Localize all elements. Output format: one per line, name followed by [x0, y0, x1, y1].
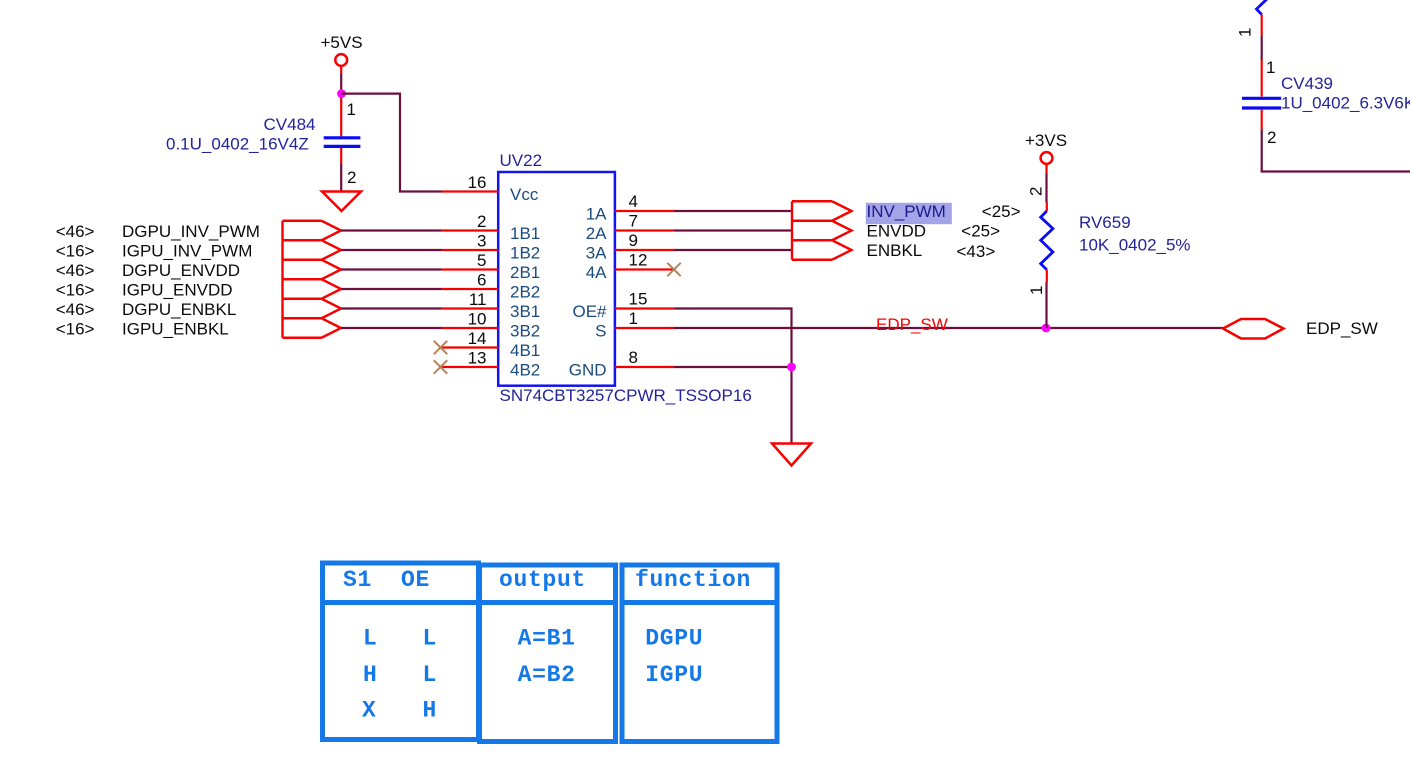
wire +3VS circle stub	[1045, 164, 1047, 174]
wire CV484 to ground	[340, 164, 342, 192]
svg-text:+5VS: +5VS	[321, 33, 363, 52]
pin 1 S	[595, 309, 674, 341]
net label <46> DGPU_ENVDD	[56, 261, 240, 280]
svg-text:7: 7	[629, 212, 638, 231]
no-connect X pin 13	[434, 360, 447, 373]
wire resistor to CV439	[1261, 36, 1263, 61]
svg-text:<46>: <46>	[56, 261, 95, 280]
input port bus (left, 6 arrows)	[283, 221, 342, 338]
svg-text:2B2: 2B2	[510, 283, 540, 302]
svg-text:12: 12	[629, 251, 648, 270]
svg-text:S: S	[595, 322, 606, 341]
svg-text:1: 1	[1027, 286, 1046, 295]
wire DGPU_INV_PWM to pin 2	[341, 229, 442, 231]
svg-text:OE#: OE#	[572, 302, 607, 321]
svg-text:<43>: <43>	[957, 242, 996, 261]
resistor (partial, top right)	[1257, 0, 1269, 15]
svg-text:L: L	[423, 662, 438, 688]
svg-text:4B1: 4B1	[510, 341, 540, 360]
off-page connector EDP_SW	[1223, 319, 1284, 339]
IC UV22 body	[498, 172, 615, 386]
svg-text:DGPU_ENVDD: DGPU_ENVDD	[122, 261, 240, 280]
svg-text:1: 1	[1266, 58, 1275, 77]
svg-text:2B1: 2B1	[510, 263, 540, 282]
power symbol +5VS	[321, 33, 363, 66]
table row 3: X H	[362, 698, 437, 724]
pin 12 4A	[586, 251, 674, 283]
wire +3VS to resistor	[1045, 174, 1047, 203]
net label INV_PWM (highlighted)	[866, 202, 952, 224]
pin 16 Vcc	[442, 173, 539, 204]
svg-text:L: L	[423, 626, 438, 652]
resistor RV659	[1041, 203, 1053, 283]
svg-text:<46>: <46>	[56, 300, 95, 319]
wire 1A to output port	[674, 210, 792, 212]
wire resistor pin stub (top right)	[1261, 15, 1263, 36]
ground symbol (UV22 GND)	[772, 444, 811, 466]
net label <16> IGPU_INV_PWM	[56, 241, 253, 260]
pin 6 2B2	[442, 271, 541, 302]
table row 2: H L	[363, 662, 437, 688]
wire RV659 to EDP_SW net	[1045, 283, 1047, 329]
pin 2 1B1	[442, 212, 541, 243]
svg-text:10K_0402_5%: 10K_0402_5%	[1079, 236, 1191, 255]
svg-text:2A: 2A	[586, 224, 607, 243]
wire DGPU_ENBKL to pin 11	[341, 307, 442, 309]
pin 14 4B1	[442, 329, 541, 360]
svg-text:3: 3	[477, 232, 486, 251]
svg-text:DGPU_INV_PWM: DGPU_INV_PWM	[122, 222, 260, 241]
svg-text:4B2: 4B2	[510, 361, 540, 380]
pin 4 1A	[586, 192, 674, 224]
svg-text:4A: 4A	[586, 263, 607, 282]
truth table column S1/OE	[323, 563, 479, 740]
net label <46> DGPU_INV_PWM	[56, 222, 260, 241]
no-connect X pin 12	[667, 263, 680, 276]
pin 15 OE#	[572, 290, 674, 322]
pin 8 GND	[569, 348, 674, 380]
pin 7 2A	[586, 212, 674, 244]
svg-text:IGPU_ENVDD: IGPU_ENVDD	[122, 280, 233, 299]
svg-text:1: 1	[629, 309, 638, 328]
svg-text:H: H	[423, 698, 438, 724]
wire 3A to output port	[674, 249, 792, 251]
svg-text:<16>: <16>	[56, 280, 95, 299]
svg-text:6: 6	[477, 271, 486, 290]
net label <16> IGPU_ENBKL	[56, 319, 229, 338]
junction dot node +5VS	[337, 89, 346, 98]
svg-text:RV659: RV659	[1079, 213, 1131, 232]
pin 13 4B2	[442, 349, 541, 380]
svg-text:OE: OE	[401, 567, 430, 593]
junction dot GND node	[787, 363, 796, 372]
svg-text:L: L	[363, 626, 378, 652]
wire S / EDP_SW net	[674, 327, 1223, 329]
svg-text:1B1: 1B1	[510, 224, 540, 243]
svg-text:2: 2	[1267, 128, 1276, 147]
svg-text:ENBKL: ENBKL	[867, 241, 923, 260]
svg-text:10: 10	[468, 310, 487, 329]
svg-text:DGPU: DGPU	[645, 626, 703, 652]
capacitor CV439	[1242, 60, 1281, 130]
svg-text:1U_0402_6.3V6K: 1U_0402_6.3V6K	[1281, 94, 1410, 113]
svg-text:CV484: CV484	[264, 115, 316, 134]
svg-text:+3VS: +3VS	[1025, 131, 1067, 150]
svg-text:UV22: UV22	[500, 151, 543, 170]
svg-text:5: 5	[477, 251, 486, 270]
wire OE# to ground net	[674, 309, 792, 444]
svg-text:11: 11	[469, 290, 487, 309]
capacitor CV484	[324, 99, 361, 164]
svg-text:GND: GND	[569, 361, 607, 380]
wire +5VS to junction	[340, 74, 342, 99]
svg-text:INV_PWM: INV_PWM	[867, 202, 946, 221]
svg-text:X: X	[362, 698, 377, 724]
svg-text:13: 13	[468, 349, 487, 368]
svg-text:14: 14	[468, 329, 487, 348]
svg-text:ENVDD: ENVDD	[867, 221, 927, 240]
svg-text:IGPU_INV_PWM: IGPU_INV_PWM	[122, 241, 252, 260]
net label <16> IGPU_ENVDD	[56, 280, 233, 299]
svg-text:1B2: 1B2	[510, 244, 540, 263]
svg-text:2: 2	[477, 212, 486, 231]
pin 5 2B1	[442, 251, 541, 282]
svg-text:A=B1: A=B1	[518, 626, 576, 652]
svg-text:16: 16	[468, 173, 487, 192]
svg-text:<25>: <25>	[982, 202, 1021, 221]
svg-text:1A: 1A	[586, 205, 607, 224]
svg-text:4: 4	[629, 192, 638, 211]
svg-text:IGPU: IGPU	[645, 662, 703, 688]
svg-text:8: 8	[629, 348, 638, 367]
svg-text:15: 15	[629, 290, 648, 309]
pin 10 3B2	[442, 310, 541, 341]
pin 11 3B1	[442, 290, 541, 321]
net label <46> DGPU_ENBKL	[56, 300, 237, 319]
output port bus (right, 3 arrows)	[792, 201, 852, 260]
wire GND pin to junction	[674, 366, 792, 368]
ground symbol (CV484)	[322, 192, 361, 212]
wire IGPU_ENBKL to pin 10	[341, 327, 442, 329]
svg-text:DGPU_ENBKL: DGPU_ENBKL	[122, 300, 236, 319]
wire 2A to output port	[674, 229, 792, 231]
svg-text:3A: 3A	[586, 244, 607, 263]
svg-text:<46>: <46>	[56, 222, 95, 241]
svg-text:9: 9	[629, 231, 638, 250]
svg-text:EDP_SW: EDP_SW	[1306, 319, 1378, 338]
svg-text:<16>: <16>	[56, 319, 95, 338]
svg-text:S1: S1	[343, 567, 372, 593]
pin 3 1B2	[442, 232, 541, 263]
svg-text:0.1U_0402_16V4Z: 0.1U_0402_16V4Z	[166, 135, 309, 154]
wire junction to UV22 Vcc pin	[342, 94, 442, 192]
svg-text:output: output	[499, 567, 586, 593]
svg-text:<16>: <16>	[56, 241, 95, 260]
wire IGPU_ENVDD to pin 6	[341, 288, 442, 290]
svg-text:1: 1	[1236, 28, 1255, 37]
svg-text:CV439: CV439	[1281, 74, 1333, 93]
power symbol +3VS	[1025, 131, 1067, 164]
svg-text:3B1: 3B1	[510, 302, 540, 321]
svg-text:2: 2	[1027, 187, 1046, 196]
svg-text:function: function	[635, 567, 751, 593]
svg-text:H: H	[363, 662, 378, 688]
svg-text:IGPU_ENBKL: IGPU_ENBKL	[122, 319, 229, 338]
no-connect X pin 14	[434, 341, 447, 354]
svg-text:3B2: 3B2	[510, 322, 540, 341]
svg-text:2: 2	[347, 168, 356, 187]
table row 1: L L	[363, 626, 437, 652]
truth table column function	[622, 565, 777, 742]
wire +5VS circle stub	[340, 66, 342, 74]
svg-text:SN74CBT3257CPWR_TSSOP16: SN74CBT3257CPWR_TSSOP16	[500, 386, 752, 405]
svg-text:A=B2: A=B2	[518, 662, 576, 688]
svg-text:<25>: <25>	[961, 222, 1000, 241]
svg-text:Vcc: Vcc	[510, 185, 539, 204]
wire DGPU_ENVDD to pin 5	[341, 268, 442, 270]
svg-text:1: 1	[347, 100, 356, 119]
wire CV439 to net (bottom right)	[1262, 130, 1410, 172]
table header S1 OE	[343, 567, 430, 593]
svg-text:EDP_SW: EDP_SW	[876, 315, 948, 334]
truth table column output	[480, 565, 616, 742]
pin 9 3A	[586, 231, 674, 263]
junction dot EDP_SW / RV659	[1042, 324, 1051, 333]
wire IGPU_INV_PWM to pin 3	[341, 249, 442, 251]
